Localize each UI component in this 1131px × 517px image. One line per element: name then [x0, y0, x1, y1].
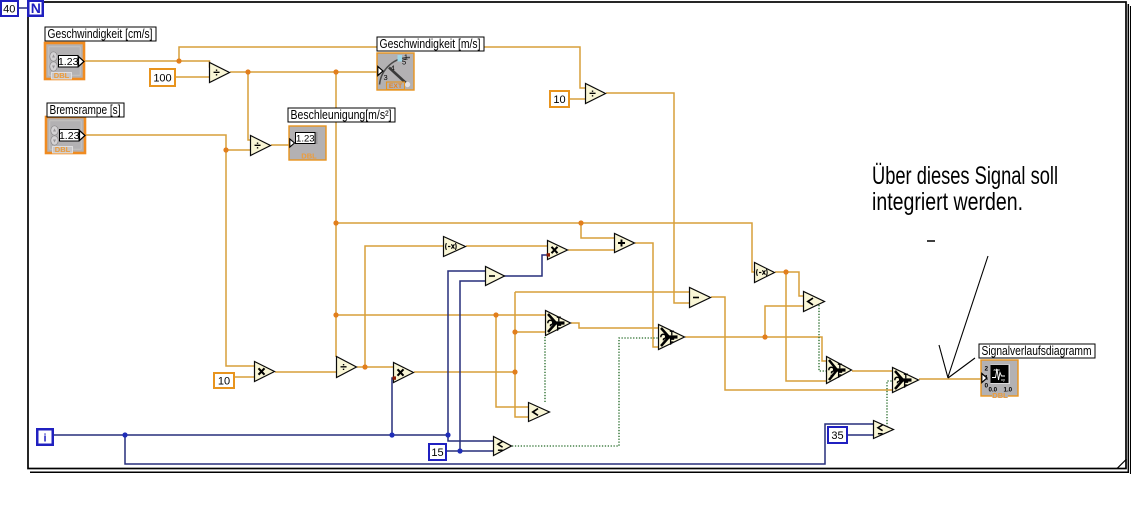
svg-text:Über dieses Signal soll: Über dieses Signal soll	[872, 162, 1058, 190]
wire i branch to lessEq2 top input	[448, 435, 493, 441]
wire subtract2 output to selectB f input	[711, 297, 892, 390]
junction	[457, 448, 462, 453]
constant 10 bottom	[214, 373, 234, 388]
svg-text:i: i	[43, 433, 46, 445]
constant 15	[429, 444, 446, 460]
junction	[445, 432, 450, 437]
add node	[615, 234, 635, 253]
wire lessEq2 output to select2 s input	[512, 338, 658, 446]
negate node 2	[755, 263, 775, 283]
wire select1 output to select2 t input	[571, 323, 658, 328]
wire multiply2 output to junction	[414, 371, 515, 373]
divide node 2	[251, 136, 271, 156]
junction	[578, 220, 583, 225]
wire selectA output to selectB t input	[852, 370, 892, 372]
wire divide2 output to Beschleunigung indicator	[271, 144, 289, 146]
constant 100	[150, 69, 175, 86]
wire long horizontal to negate2	[336, 223, 754, 272]
wire constant 35 to lessEq1 bottom input	[847, 434, 873, 436]
junction	[493, 312, 498, 317]
select node 2	[659, 325, 685, 350]
wire less2 output to selectA s input	[819, 305, 826, 371]
svg-text:Geschwindigkeit [m/s]: Geschwindigkeit [m/s]	[380, 37, 481, 51]
wire junction down to less1 top input	[496, 315, 528, 407]
constant 35	[828, 427, 847, 443]
wire constant 10b to multiply1 bottom input	[234, 376, 254, 378]
svg-text:N: N	[31, 0, 41, 16]
junction	[389, 432, 394, 437]
wire junction to divide2 bottom input	[226, 149, 250, 151]
svg-text:35: 35	[831, 430, 843, 442]
wire horizontal to select1 t input	[336, 314, 545, 316]
wire selectB output to chart terminal	[919, 378, 981, 380]
wire i terminal across	[53, 434, 448, 436]
iteration terminal i	[37, 429, 53, 445]
wire vertical x515 to less1 bottom input	[515, 292, 528, 417]
numeric control Bremsrampe [s]	[46, 117, 85, 154]
wire constant 15 to lessEq2 bottom input	[446, 450, 493, 452]
wire negate1 output to multiplyX top input	[466, 245, 547, 247]
wire multiply1 output to divide4 bottom input	[275, 371, 336, 373]
wire less1 output to select1 s input	[544, 337, 546, 402]
wire constant 10 to divide3 bottom input	[569, 98, 585, 100]
wire vertical divide4 output up to negate1 input	[365, 246, 443, 367]
svg-text:Geschwindigkeit [cm/s]: Geschwindigkeit [cm/s]	[48, 27, 153, 41]
svg-text:Signalverlaufsdiagramm: Signalverlaufsdiagramm	[982, 344, 1092, 358]
svg-text:integriert werden.: integriert werden.	[872, 188, 1023, 216]
wire junction to divide1 top input	[179, 61, 213, 67]
svg-text:xy: xy	[1001, 377, 1005, 382]
subtract node 2	[690, 288, 711, 308]
wire add output down to select2 f input	[635, 243, 658, 347]
annotation text	[872, 162, 1058, 216]
junction	[762, 334, 767, 339]
coercion dot	[393, 376, 396, 379]
svg-text:abc: abc	[994, 367, 1000, 372]
gauge indicator Geschwindigkeit [m/s]	[377, 53, 414, 90]
svg-text:1.23: 1.23	[58, 56, 79, 68]
wire junction down to divide2 top input	[248, 72, 250, 140]
annotation arrow	[939, 256, 988, 378]
label Beschleunigung[m/s2]	[288, 108, 395, 122]
svg-text:÷: ÷	[213, 66, 220, 80]
less-equal node 1	[874, 421, 894, 439]
svg-text:15: 15	[431, 447, 443, 459]
wire subtract1 output to multiplyX bottom input	[504, 255, 547, 276]
junction	[362, 364, 367, 369]
svg-text:3: 3	[384, 73, 388, 82]
wire multiplyX output to add bottom input	[568, 249, 614, 251]
junction	[333, 69, 338, 74]
svg-text:÷: ÷	[340, 360, 347, 374]
wire divide4 output to multiply2 top input	[357, 366, 393, 368]
svg-text:1.23: 1.23	[296, 133, 315, 144]
svg-text:÷: ÷	[254, 139, 261, 153]
constant 40	[1, 1, 18, 16]
junction	[333, 220, 338, 225]
wire i branch down and to lessEq1 top input	[125, 424, 873, 464]
svg-text:÷: ÷	[589, 87, 596, 101]
divide node 1	[210, 63, 230, 83]
junction	[333, 312, 338, 317]
svg-text:2: 2	[985, 366, 989, 373]
subtract node 1	[486, 267, 505, 286]
wire junction down to add node top input	[581, 223, 614, 238]
multiply node 2	[394, 363, 414, 383]
N loop count terminal	[28, 0, 43, 16]
wire junction up to subtract1 bottom input	[460, 281, 485, 451]
divide node 3	[586, 84, 606, 104]
junction	[176, 58, 181, 63]
wire junction to select1 f input	[515, 331, 545, 333]
label Geschwindigkeit [cm/s]	[45, 27, 156, 41]
wire constant 100 to divide1 bottom input	[175, 76, 209, 78]
wire negate2 output to junction	[775, 271, 786, 273]
wire junction up to less2 bottom input	[765, 306, 803, 337]
junction	[512, 329, 517, 334]
svg-text:DBL: DBL	[992, 391, 1008, 400]
multiply node 1	[255, 362, 275, 382]
wire junction to less2 top input	[786, 272, 803, 296]
svg-text:10: 10	[218, 376, 230, 388]
svg-text:1.23: 1.23	[59, 130, 80, 142]
svg-text:EXT: EXT	[389, 83, 403, 90]
negate node 1	[444, 237, 466, 257]
wire control Geschwindigkeit[cm/s] to junction	[84, 60, 179, 62]
svg-text:40: 40	[3, 3, 15, 15]
select node A	[827, 357, 852, 384]
waveform chart terminal Signalverlaufsdiagramm	[981, 360, 1018, 400]
svg-text:DBL: DBL	[301, 152, 317, 161]
wire i branch up to subtract1 top input	[448, 271, 485, 435]
wire junction up and across top to divide3	[179, 47, 585, 88]
junction	[783, 269, 788, 274]
wire lessEq1 output to selectB s input	[887, 381, 892, 427]
wire divide3 output down to subtract2 bottom input	[606, 93, 689, 303]
select node B	[893, 368, 919, 393]
svg-text:5: 5	[402, 58, 406, 67]
svg-text:10: 10	[553, 94, 565, 106]
multiply node 3	[548, 241, 568, 260]
junction	[122, 432, 127, 437]
less-equal node 2	[494, 437, 512, 456]
numeric control Geschwindigkeit [cm/s]	[45, 43, 84, 80]
wire i branch up to multiply2 bottom input	[392, 378, 394, 435]
svg-text:100: 100	[153, 73, 171, 85]
wire junction down to selectA f input	[786, 272, 826, 381]
wire gauge junction down to divide4 top input	[335, 72, 337, 357]
junction	[512, 369, 517, 374]
wire Bremsrampe across and down to multiply1	[85, 135, 254, 366]
svg-text:Bremsrampe [s]: Bremsrampe [s]	[50, 103, 121, 117]
wire constant 40 to N	[18, 7, 28, 9]
numeric indicator Beschleunigung	[289, 126, 326, 161]
wire divide1 output to gauge	[230, 71, 377, 73]
svg-text:DBL: DBL	[54, 71, 70, 80]
constant 10 top	[550, 91, 569, 107]
select node 1	[546, 311, 571, 336]
svg-text:DBL: DBL	[55, 145, 71, 154]
wire select2 output to selectA t input	[685, 337, 826, 361]
svg-text:Beschleunigung[m/s²]: Beschleunigung[m/s²]	[291, 108, 392, 122]
coercion dot	[547, 253, 550, 256]
less-than node 2	[804, 292, 825, 312]
junction	[245, 69, 250, 74]
label Bremsrampe [s]	[47, 103, 124, 117]
label Geschwindigkeit [m/s]	[377, 37, 484, 51]
wire horizontal to subtract2 top input	[515, 291, 689, 293]
junction	[223, 147, 228, 152]
annotation dash	[927, 240, 935, 242]
less-than node 1	[529, 403, 550, 422]
divide node 4	[337, 357, 357, 378]
label Signalverlaufsdiagramm	[979, 344, 1095, 358]
